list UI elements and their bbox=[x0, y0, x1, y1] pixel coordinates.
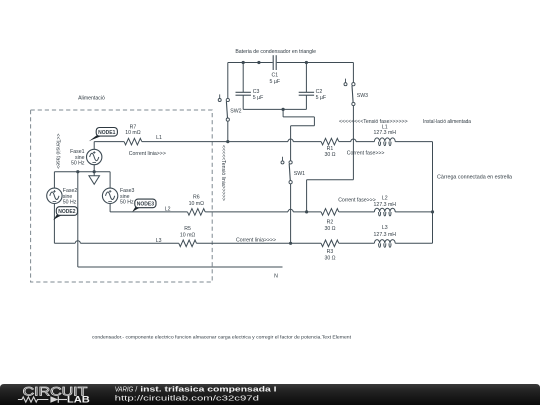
svg-text:10 mΩ: 10 mΩ bbox=[189, 201, 205, 207]
svg-text:C2: C2 bbox=[316, 89, 323, 95]
capacitor C2 bbox=[305, 63, 307, 93]
resistor R1 bbox=[321, 138, 339, 145]
svg-text:SW3: SW3 bbox=[357, 93, 368, 99]
wire bank left drop bbox=[227, 63, 229, 99]
svg-text:Corrent linia>>>: Corrent linia>>> bbox=[129, 151, 166, 157]
svg-text:Fase3: Fase3 bbox=[120, 188, 135, 194]
svg-text:127.3 mH: 127.3 mH bbox=[374, 232, 397, 238]
node dot top mid bbox=[257, 61, 260, 64]
svg-text:127.3 mH: 127.3 mH bbox=[374, 130, 397, 136]
svg-text:condensador.- componente elect: condensador.- componente electrico funci… bbox=[92, 335, 352, 341]
wire bank right drop bbox=[352, 63, 354, 83]
wire L3 left bbox=[54, 242, 75, 244]
svg-text:R6: R6 bbox=[193, 195, 200, 201]
svg-text:L2: L2 bbox=[165, 206, 171, 212]
svg-text:VARIG: VARIG bbox=[115, 385, 134, 394]
wire L1 right bbox=[339, 141, 351, 143]
star wire bbox=[54, 171, 110, 173]
svg-text:Corrent linia>>>>: Corrent linia>>>> bbox=[236, 238, 276, 244]
node dot star/ground bbox=[93, 170, 96, 173]
svg-text:NODE2: NODE2 bbox=[58, 209, 75, 215]
wire L2 mid bbox=[205, 211, 288, 213]
svg-text:5 µF: 5 µF bbox=[253, 95, 263, 101]
svg-text:30 Ω: 30 Ω bbox=[324, 152, 335, 158]
wire bank jog down2 bbox=[313, 117, 315, 126]
svg-text:L3: L3 bbox=[156, 238, 162, 244]
ground bbox=[93, 172, 95, 176]
wire neutral vertical bbox=[77, 172, 79, 267]
svg-text:Càrrega connectada en estrella: Càrrega connectada en estrella bbox=[437, 175, 512, 181]
svg-text:R2: R2 bbox=[327, 220, 334, 226]
svg-text:Alimentació: Alimentació bbox=[78, 96, 105, 102]
svg-text:Corrent fase>>>: Corrent fase>>> bbox=[338, 197, 376, 203]
node label NODE3 bbox=[132, 207, 143, 212]
svg-text:N: N bbox=[274, 273, 278, 279]
wire top bank right segment bbox=[277, 62, 354, 64]
node label NODE1 bbox=[89, 135, 104, 141]
resistor R7 bbox=[124, 138, 142, 145]
switch SW1 bbox=[289, 161, 292, 164]
svg-text:http://circuitlab.com/c32c97d: http://circuitlab.com/c32c97d bbox=[115, 393, 259, 402]
source Fase1 bbox=[93, 142, 95, 150]
svg-text:C1: C1 bbox=[271, 72, 278, 78]
svg-text:10 mΩ: 10 mΩ bbox=[180, 233, 196, 239]
svg-text:R3: R3 bbox=[327, 249, 334, 255]
capacitor C1 bbox=[272, 55, 274, 70]
node label NODE2 bbox=[53, 215, 64, 221]
node dot jog/L2 bbox=[305, 210, 308, 213]
wire top bank left segment bbox=[228, 62, 273, 64]
source Fase3 bbox=[109, 172, 111, 188]
svg-text:NODE1: NODE1 bbox=[98, 130, 115, 136]
svg-text:L3: L3 bbox=[382, 225, 388, 231]
svg-text:<<Tensió fase>: <<Tensió fase> bbox=[54, 134, 60, 169]
resistor R5 bbox=[179, 240, 197, 247]
wire SW2 to L1 bbox=[227, 121, 229, 141]
switch SW3 bbox=[352, 83, 355, 86]
wire jog left bbox=[307, 179, 354, 181]
wire SW1 down to L3 wire bbox=[290, 184, 292, 244]
wire neutral horizontal bbox=[78, 266, 283, 268]
wire to SW1 bbox=[290, 126, 292, 161]
svg-text:50 Hz: 50 Hz bbox=[63, 200, 77, 206]
node dot L2/right bbox=[431, 210, 434, 213]
svg-text:SW1: SW1 bbox=[294, 171, 305, 177]
resistor R6 bbox=[188, 209, 206, 216]
svg-text:Fase2: Fase2 bbox=[63, 188, 78, 194]
svg-text:L2: L2 bbox=[382, 195, 388, 201]
capacitor C3 bbox=[242, 63, 244, 93]
svg-text:10 mΩ: 10 mΩ bbox=[125, 130, 141, 136]
svg-text:5 µF: 5 µF bbox=[270, 79, 280, 85]
svg-text:inst. trifasica compensada I: inst. trifasica compensada I bbox=[140, 385, 276, 394]
inductor L1 bbox=[374, 138, 395, 142]
node dot SW1/L3 bbox=[289, 242, 292, 245]
wire bank jog right bbox=[283, 116, 314, 118]
svg-text:Corrent fase>>>: Corrent fase>>> bbox=[347, 151, 385, 157]
svg-text:30 Ω: 30 Ω bbox=[324, 226, 335, 232]
inductor L2 bbox=[339, 211, 375, 213]
wire L1 left bbox=[94, 141, 124, 143]
wire jog down to L2 bbox=[306, 180, 308, 212]
svg-text:Fase1: Fase1 bbox=[70, 149, 85, 155]
switch SW2 bbox=[226, 98, 229, 101]
svg-text:LAB: LAB bbox=[67, 393, 90, 404]
svg-text:C3: C3 bbox=[253, 89, 260, 95]
svg-text:R5: R5 bbox=[184, 226, 191, 232]
svg-text:Instal·lació alimentada: Instal·lació alimentada bbox=[423, 119, 471, 125]
node dot bank bottom bbox=[282, 108, 285, 111]
wire L3 mid bbox=[197, 242, 322, 244]
source Fase2 bbox=[53, 172, 55, 188]
resistor R2 bbox=[321, 209, 339, 216]
node dot top/C2 bbox=[305, 61, 308, 64]
wire L2 left bbox=[110, 211, 187, 213]
inductor L3 bbox=[339, 242, 375, 244]
svg-text:30 Ω: 30 Ω bbox=[324, 255, 335, 261]
svg-text:50 Hz: 50 Hz bbox=[120, 200, 134, 206]
wire bank jog left bbox=[291, 125, 315, 127]
node dot star/neutral bbox=[76, 170, 79, 173]
Alimentacio dashed box bbox=[31, 110, 213, 282]
wire bank jog down bbox=[282, 109, 284, 117]
resistor R3 bbox=[321, 240, 339, 247]
node dot top/C3 bbox=[242, 61, 245, 64]
svg-text:5 µF: 5 µF bbox=[316, 95, 326, 101]
svg-text:127.3 mH: 127.3 mH bbox=[374, 202, 397, 208]
wire L1 mid bbox=[142, 141, 288, 143]
svg-text:<<<<<Tensió linia>>>>>: <<<<<Tensió linia>>>>> bbox=[220, 145, 226, 201]
wire SW3 down bbox=[352, 106, 354, 180]
svg-text:L1: L1 bbox=[156, 135, 162, 141]
node dot SW2/L1 bbox=[226, 140, 229, 143]
svg-text:NODE3: NODE3 bbox=[137, 202, 154, 208]
svg-text:50 Hz: 50 Hz bbox=[71, 161, 85, 167]
svg-text:Bateria de condensador en tria: Bateria de condensador en triangle bbox=[235, 49, 316, 55]
svg-text:SW2: SW2 bbox=[230, 109, 241, 115]
wire load star vertical bbox=[432, 142, 434, 244]
svg-text:<<<<<<<<Tensió fase>>>>>>: <<<<<<<<Tensió fase>>>>>> bbox=[339, 119, 408, 125]
wire bank bottom bbox=[243, 108, 306, 110]
svg-text:R1: R1 bbox=[327, 146, 334, 152]
